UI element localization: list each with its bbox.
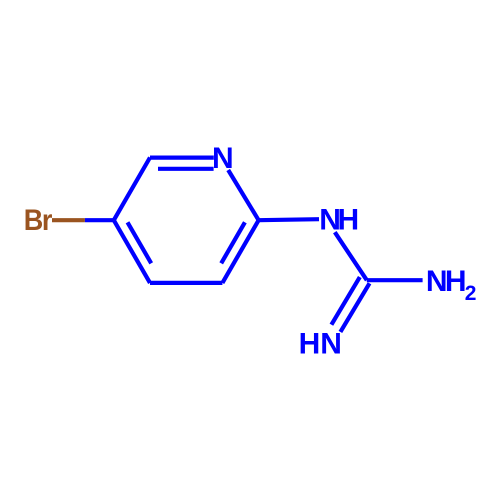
bond C2-N1 (ring upper-right edge) [228, 170, 258, 220]
bond Br-C5, blue half at C5 [85, 218, 114, 222]
bond C6-C5 (ring upper-left edge) [114, 158, 150, 221]
bond C5=C4 main line (ring lower-left edge) [114, 220, 150, 283]
svg-text:N: N [212, 142, 234, 175]
bond C8-N9 (to NH2) [367, 278, 423, 282]
bond C3=C2 inner line [221, 222, 245, 263]
bond C8=N10 west line (down to HN) [331, 277, 359, 325]
bond C4-C3 (ring bottom edge) [150, 281, 222, 285]
bond N1=C6 inner line [158, 167, 214, 171]
svg-text:Br: Br [24, 204, 53, 238]
bond C2-N7 (to NH) [259, 219, 319, 220]
bond C5=C4 inner line [128, 222, 152, 263]
bond N7-C8 (NH down to guanidine carbon) [335, 232, 367, 280]
svg-text:NH: NH [426, 265, 465, 298]
svg-text:NH: NH [319, 203, 357, 236]
bond C3=C2 main line (ring lower-right edge) [222, 220, 258, 283]
bond N1=C6 main line (ring top edge) [150, 156, 214, 160]
bond C8=N10 east line [340, 283, 369, 332]
bond Br-C5, brown half at Br [52, 218, 85, 222]
svg-text:HN: HN [299, 327, 342, 360]
svg-text:2: 2 [465, 282, 477, 305]
